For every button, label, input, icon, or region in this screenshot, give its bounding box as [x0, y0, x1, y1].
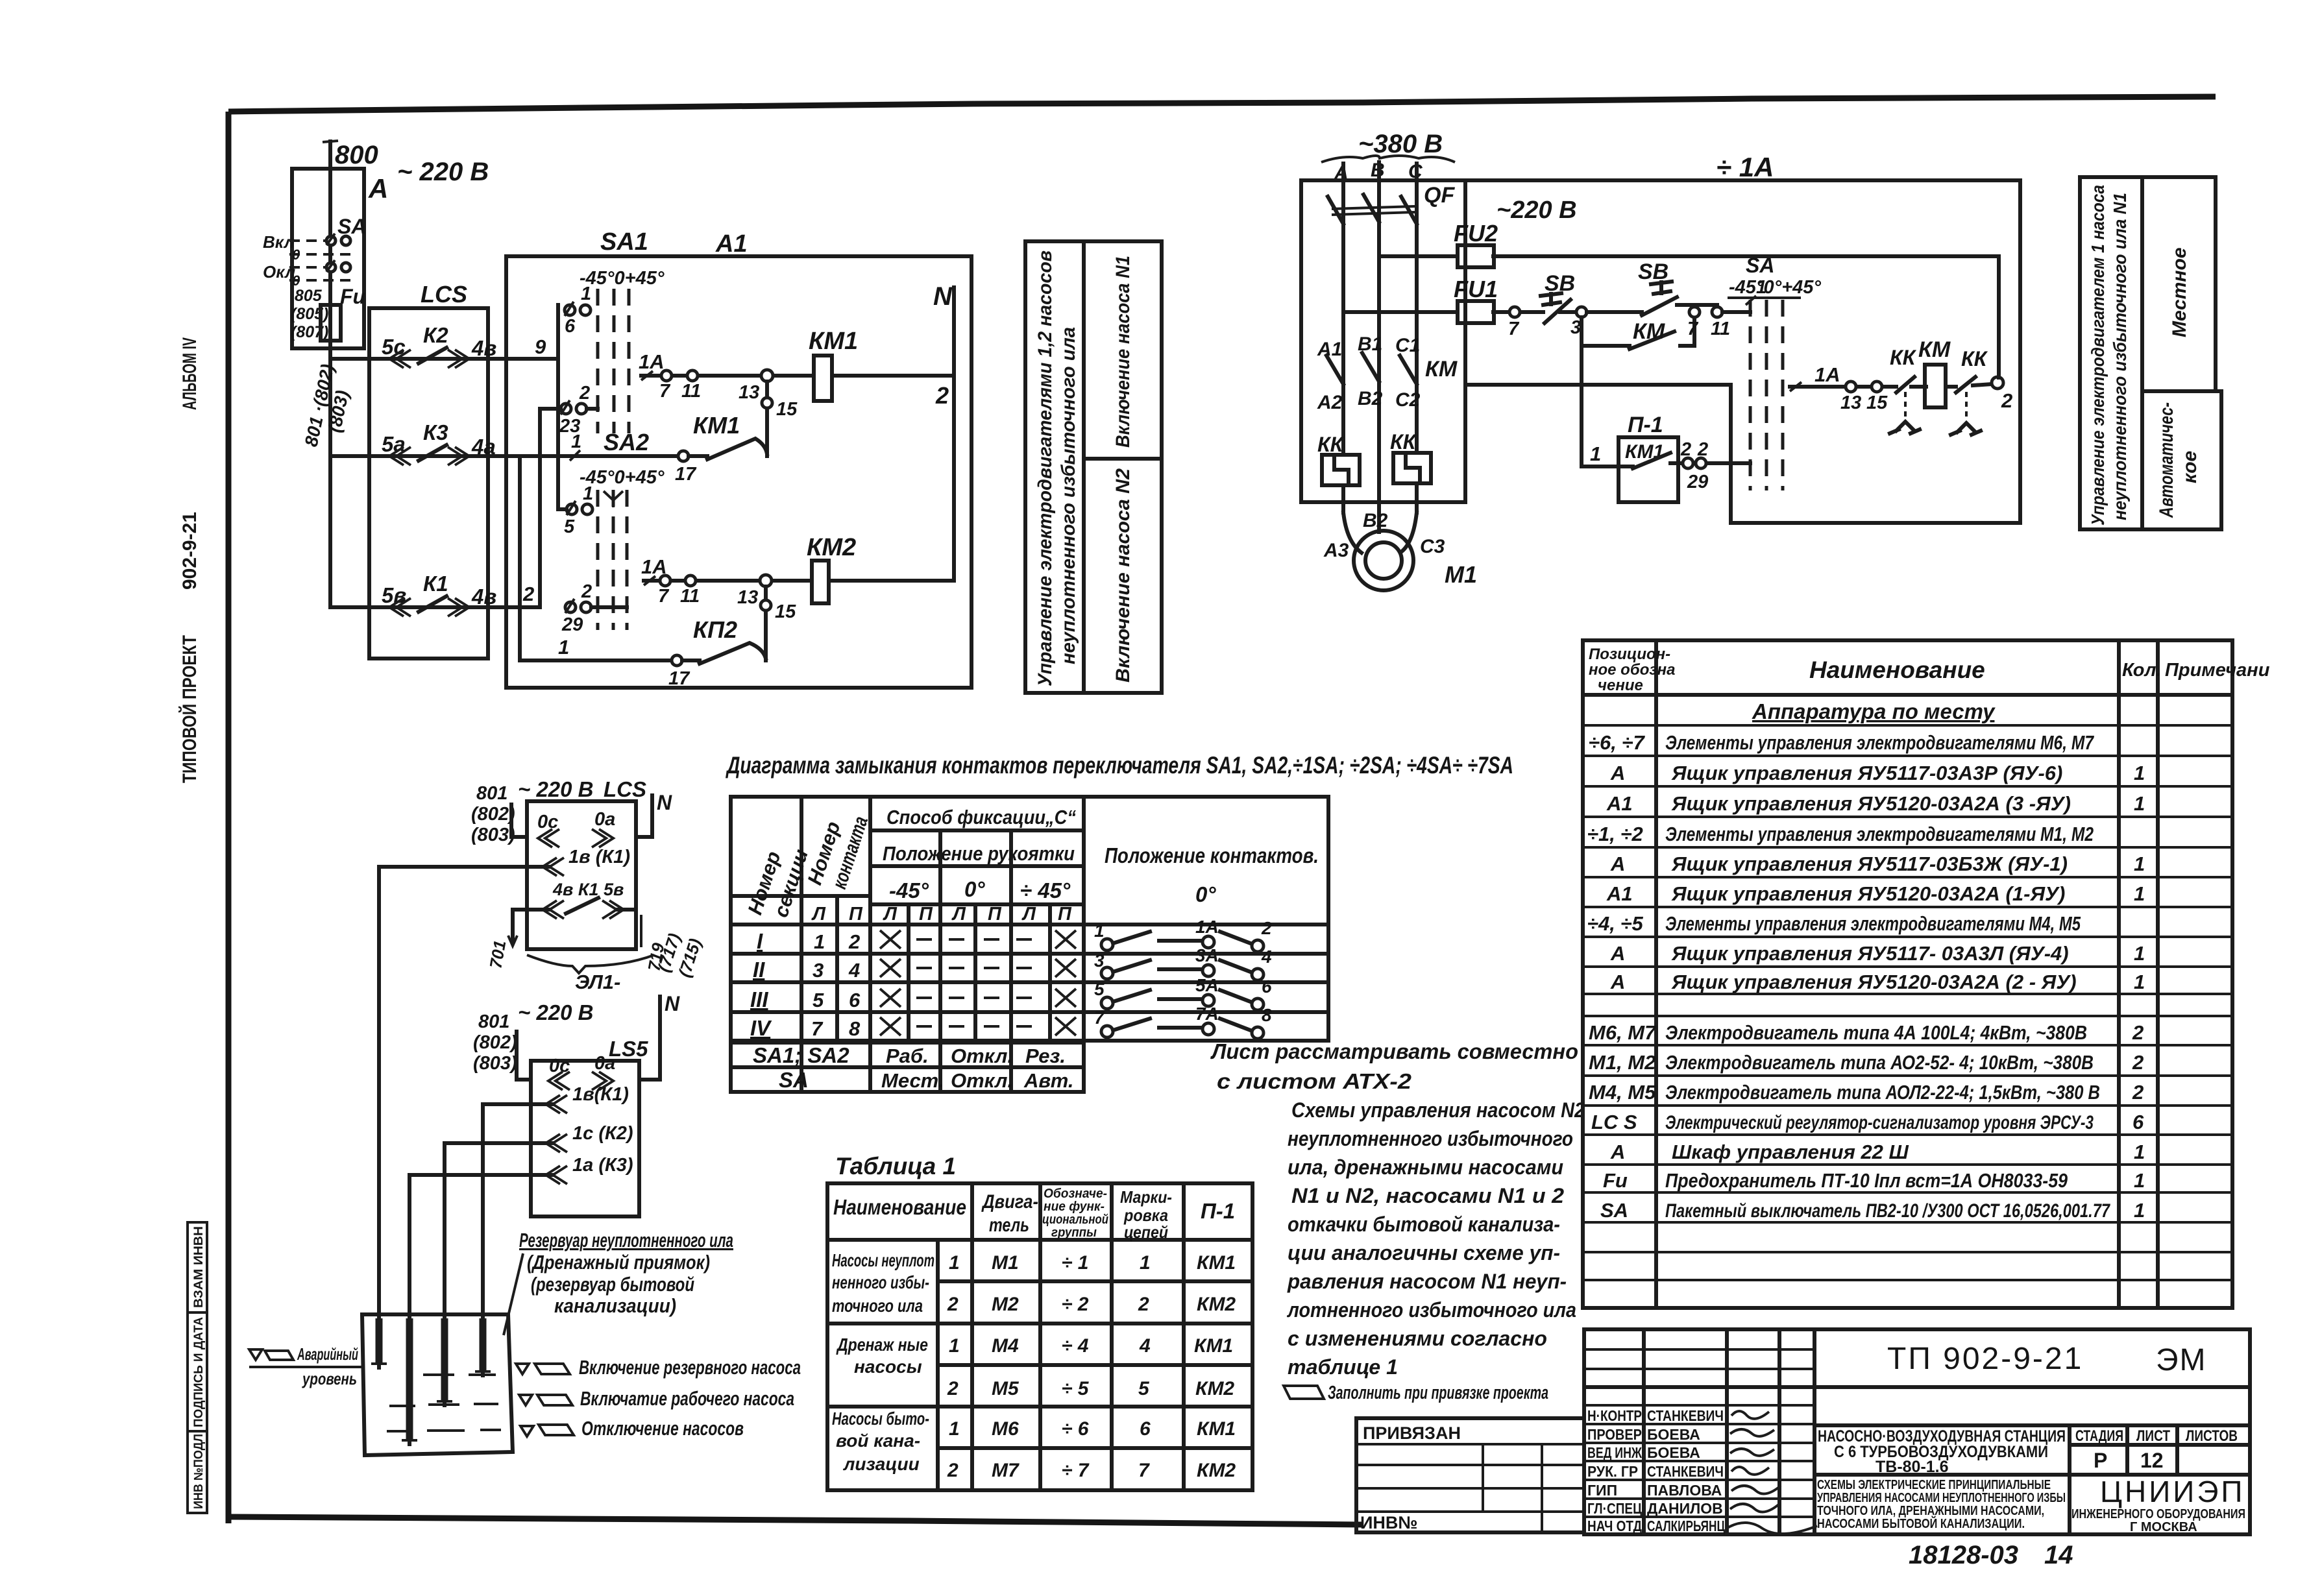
svg-text:Окл: Окл — [263, 262, 295, 282]
svg-text:1: 1 — [581, 284, 591, 304]
svg-text:801: 801 — [478, 1011, 509, 1032]
node 2 — [1992, 377, 2003, 389]
svg-text:АЛЬБОМ IV: АЛЬБОМ IV — [179, 337, 201, 410]
svg-text:4: 4 — [1261, 947, 1272, 967]
svg-text:КМ2: КМ2 — [1197, 1460, 1236, 1481]
caption table pumps 1-2 — [1025, 241, 1162, 693]
svg-text:2: 2 — [2001, 389, 2012, 412]
svg-text:Шкаф управления 22 Ш: Шкаф управления 22 Ш — [1672, 1141, 1909, 1163]
svg-text:15: 15 — [775, 601, 796, 622]
riser x801 — [518, 456, 522, 660]
svg-text:уровень: уровень — [301, 1369, 357, 1388]
SA2 bracket — [604, 491, 623, 507]
svg-text:1: 1 — [949, 1252, 960, 1274]
title block verticals left — [1644, 1329, 1814, 1534]
svg-text:КМ1: КМ1 — [1194, 1335, 1233, 1357]
svg-text:П: П — [988, 904, 1002, 925]
svg-text:0: 0 — [292, 247, 300, 263]
coil KM1 — [814, 356, 832, 401]
svg-text:Л: Л — [883, 904, 898, 925]
svg-text:N1 и N2, насосами N1 и 2: N1 и N2, насосами N1 и 2 — [1291, 1184, 1564, 1207]
svg-text:1: 1 — [1140, 1252, 1151, 1274]
svg-text:SА: SА — [779, 1068, 809, 1092]
svg-text:Диаграмма замыкания контактов: Диаграмма замыкания контактов переключат… — [726, 752, 1513, 779]
svg-text:КМ: КМ — [1633, 319, 1665, 344]
row 1a K3 — [409, 1173, 552, 1177]
motor compartment box — [1301, 180, 1465, 502]
brace under 380V — [1321, 156, 1455, 162]
svg-text:(802): (802) — [473, 1032, 517, 1053]
svg-text:Ящик управления ЯУ5117-03Б3Ж: Ящик управления ЯУ5117-03Б3Ж (ЯУ-1) — [1671, 852, 2068, 875]
wire row 5v — [330, 605, 540, 609]
svg-text:А1: А1 — [1606, 882, 1633, 905]
svg-text:6: 6 — [849, 989, 861, 1011]
svg-text:LC S: LC S — [1591, 1111, 1637, 1133]
svg-text:неуплотненного избыточного ила: неуплотненного избыточного ила — [1058, 327, 1079, 664]
svg-text:Ящик управления ЯУ5120-03А2А: Ящик управления ЯУ5120-03А2А (2 - ЯУ) — [1671, 971, 2077, 993]
wire coil KM1 to N — [832, 374, 954, 378]
svg-text:ЛИСТОВ: ЛИСТОВ — [2186, 1427, 2238, 1445]
svg-text:точного ила: точного ила — [832, 1296, 923, 1316]
svg-text:2: 2 — [2132, 1051, 2144, 1074]
svg-text:Откл.: Откл. — [951, 1045, 1013, 1067]
svg-text:2: 2 — [1680, 439, 1691, 460]
svg-text:~ 220 В: ~ 220 В — [518, 777, 594, 801]
svg-text:QF: QF — [1424, 183, 1455, 208]
svg-text:ТП 902-9-21: ТП 902-9-21 — [1887, 1342, 2083, 1376]
wire 800 vertical feed — [328, 141, 332, 607]
fuse FU1 rung — [1343, 310, 1543, 314]
svg-text:I: I — [757, 929, 763, 953]
note fill on binding — [1284, 1386, 1324, 1399]
switch SA2 dashed poles — [598, 490, 627, 630]
contact sketch row I — [1094, 917, 1272, 952]
svg-text:15: 15 — [776, 399, 798, 420]
svg-text:29: 29 — [1687, 472, 1708, 492]
title main divider — [1584, 1387, 2250, 1475]
node 15 — [762, 398, 772, 408]
svg-text:неуплотненного избыточного ил: неуплотненного избыточного ила N1 — [2110, 193, 2130, 520]
svg-text:М2: М2 — [992, 1294, 1019, 1315]
svg-text:7: 7 — [1508, 319, 1520, 339]
contact 2-23 — [561, 404, 571, 414]
signatures squiggles — [1731, 1411, 1769, 1419]
svg-text:ЛИСТ: ЛИСТ — [2136, 1427, 2170, 1445]
svg-text:Способ фиксации„С“: Способ фиксации„С“ — [886, 806, 1076, 828]
svg-text:К2: К2 — [423, 323, 448, 347]
svg-text:1в(К1): 1в(К1) — [572, 1084, 629, 1105]
svg-text:М1: М1 — [992, 1252, 1019, 1274]
svg-text:Электродвигатель типа 4А 1: Электродвигатель типа 4А 100L4; 4кВт, ~3… — [1665, 1021, 2087, 1044]
svg-text:Включение насоса N1: Включение насоса N1 — [1112, 256, 1134, 448]
svg-text:откачки бытовой канализа-: откачки бытовой канализа- — [1288, 1213, 1560, 1236]
svg-text:11: 11 — [1711, 319, 1730, 339]
svg-text:Элементы управления электродви: Элементы управления электродвигателями М… — [1665, 912, 2081, 935]
contact KM aux branch — [1582, 317, 1694, 349]
svg-text:Лист рассматривать совместно: Лист рассматривать совместно — [1210, 1039, 1578, 1063]
svg-text:Н·КОНТР: Н·КОНТР — [1587, 1407, 1642, 1424]
svg-text:Элементы управления электродв: Элементы управления электродвигателями М… — [1665, 823, 2094, 845]
wire 1-5 stub — [558, 507, 567, 511]
svg-text:Дренаж ные: Дренаж ные — [836, 1335, 928, 1355]
node 7 after FU1 — [1509, 307, 1520, 317]
svg-text:Положение рукоятки: Положение рукоятки — [883, 842, 1075, 865]
svg-text:ЦНИИЭП: ЦНИИЭП — [2100, 1475, 2245, 1508]
wire 2-23 stub — [540, 407, 598, 411]
table1 header bottom — [827, 1238, 1252, 1242]
svg-text:1: 1 — [2134, 762, 2145, 784]
svg-text:÷ 2: ÷ 2 — [1062, 1294, 1089, 1315]
svg-text:лизации: лизации — [842, 1454, 920, 1474]
svg-text:В2: В2 — [1363, 510, 1388, 531]
chevron in row1 — [389, 350, 411, 368]
svg-text:N: N — [665, 992, 680, 1015]
svg-text:1: 1 — [2134, 1199, 2145, 1222]
svg-text:3: 3 — [812, 959, 824, 982]
svg-text:А: А — [1610, 1141, 1625, 1163]
svg-text:Местное: Местное — [2169, 247, 2190, 337]
heater KK box A — [1322, 455, 1360, 485]
node 13 — [1846, 381, 1856, 392]
svg-text:А1: А1 — [715, 230, 748, 258]
contact KM1 NO — [689, 439, 767, 459]
fuse FU1 body — [1458, 301, 1494, 323]
node 15 — [1872, 381, 1882, 392]
svg-text:9: 9 — [535, 335, 546, 358]
svg-text:5А: 5А — [1195, 975, 1219, 995]
svg-text:2: 2 — [581, 581, 592, 602]
wire 2-29 to dashed — [591, 605, 627, 609]
svg-text:Ящик управления ЯУ5117- 03А3: Ящик управления ЯУ5117- 03А3Л (ЯУ-4) — [1671, 942, 2069, 965]
caption table pump1 col1 — [2080, 177, 2142, 529]
node 3 — [1576, 307, 1587, 317]
svg-text:1А: 1А — [1195, 917, 1219, 937]
arrow 1A tick — [644, 576, 655, 585]
svg-text:5: 5 — [1138, 1378, 1150, 1399]
svg-text:Ящик управления ЯУ5120-03А2А: Ящик управления ЯУ5120-03А2А (3 -ЯУ) — [1671, 792, 2071, 815]
svg-text:2: 2 — [1138, 1294, 1149, 1315]
switch SA dashed poles — [1750, 300, 1783, 490]
chevron out row1 — [448, 350, 469, 368]
svg-text:КК: КК — [1390, 430, 1417, 453]
svg-text:Л: Л — [811, 904, 826, 925]
svg-text:УПРАВЛЕНИЯ НАСОСАМИ НЕУПЛОТНЕН: УПРАВЛЕНИЯ НАСОСАМИ НЕУПЛОТНЕННОГО ИЗБЫ — [1817, 1491, 2066, 1505]
svg-text:с листом АТХ-2: с листом АТХ-2 — [1217, 1069, 1412, 1093]
svg-text:ции аналогичны схеме уп-: ции аналогичны схеме уп- — [1288, 1241, 1560, 1264]
svg-text:чение: чение — [1598, 677, 1643, 694]
contacts KM main — [1326, 353, 1417, 384]
contact KK thermal 2 — [1946, 377, 1992, 393]
svg-text:ТОЧНОГО ИЛА, ДРЕНАЖНЫМИ НАСОСА: ТОЧНОГО ИЛА, ДРЕНАЖНЫМИ НАСОСАМИ, — [1817, 1504, 2044, 1518]
svg-text:SА: SА — [1746, 254, 1774, 277]
svg-text:7: 7 — [1138, 1460, 1150, 1481]
svg-text:С2: С2 — [1395, 389, 1421, 411]
svg-text:Обозначе-: Обозначе- — [1044, 1187, 1107, 1201]
switch SA contact row3 — [326, 263, 336, 272]
svg-text:7А: 7А — [1195, 1004, 1219, 1024]
svg-text:М5: М5 — [992, 1378, 1020, 1399]
water dashes row1 — [423, 1373, 496, 1376]
contact sketch row II — [1094, 945, 1272, 980]
svg-text:Ящик управления ЯУ5117-03А3Р: Ящик управления ЯУ5117-03А3Р (ЯУ-6) — [1671, 762, 2062, 784]
svg-text:2: 2 — [848, 930, 860, 953]
svg-text:II: II — [753, 958, 765, 982]
riser electrode 2 — [408, 1175, 411, 1444]
svg-text:4: 4 — [1139, 1335, 1151, 1357]
riser electrode 1 — [377, 867, 381, 1368]
svg-text:÷4, ÷5: ÷4, ÷5 — [1587, 912, 1643, 935]
svg-text:5: 5 — [564, 516, 575, 537]
svg-text:(803): (803) — [473, 1053, 517, 1074]
svg-text:2: 2 — [947, 1378, 959, 1399]
svg-text:Кол.: Кол. — [2122, 660, 2162, 681]
svg-text:0а: 0а — [594, 1053, 615, 1074]
cabinet box A — [292, 169, 364, 348]
svg-text:LCS: LCS — [421, 281, 467, 308]
node 17 rung2 — [678, 451, 689, 461]
svg-text:~ 220 В: ~ 220 В — [397, 158, 489, 186]
svg-text:1: 1 — [1094, 921, 1105, 941]
svg-text:4в К1 5в: 4в К1 5в — [552, 880, 624, 899]
heater KK box C — [1393, 453, 1431, 483]
lead 801 bracket 2 — [517, 1032, 531, 1080]
svg-text:А1: А1 — [1317, 339, 1342, 360]
svg-text:Управление электродвигателями: Управление электродвигателями 1,2 насосо… — [1034, 250, 1056, 686]
node 15 — [761, 600, 771, 611]
svg-text:М7: М7 — [992, 1460, 1020, 1481]
svg-text:КМ1: КМ1 — [809, 328, 858, 355]
svg-text:13: 13 — [1840, 393, 1861, 413]
svg-text:Л: Л — [951, 904, 966, 925]
svg-text:А: А — [1610, 762, 1625, 784]
svg-text:Fu: Fu — [1603, 1169, 1628, 1192]
svg-text:800: 800 — [335, 141, 378, 169]
svg-text:902-9-21: 902-9-21 — [179, 512, 201, 590]
rung SA2 line — [575, 454, 678, 458]
svg-text:КМ2: КМ2 — [1195, 1378, 1234, 1399]
svg-text:FU1: FU1 — [1454, 276, 1498, 302]
svg-text:-45°: -45° — [889, 878, 929, 902]
svg-text:КК: КК — [1317, 433, 1345, 456]
svg-text:SB: SB — [1638, 260, 1668, 284]
svg-text:1с (К2): 1с (К2) — [572, 1123, 633, 1144]
svg-text:Резервуар неуплотненного ила: Резервуар неуплотненного ила — [519, 1229, 733, 1251]
node 7 right — [1689, 307, 1700, 317]
svg-text:Наименование: Наименование — [833, 1195, 966, 1219]
svg-text:Раб.: Раб. — [886, 1045, 929, 1067]
svg-text:1: 1 — [2134, 942, 2145, 965]
rung KM2 coil line — [644, 579, 812, 583]
svg-text:ГЛ·СПЕЦ: ГЛ·СПЕЦ — [1587, 1500, 1642, 1517]
svg-text:ИНЖЕНЕРНОГО ОБОРУДОВАНИЯ: ИНЖЕНЕРНОГО ОБОРУДОВАНИЯ — [2071, 1507, 2245, 1521]
svg-text:ПРОВЕР: ПРОВЕР — [1587, 1426, 1642, 1443]
svg-text:кое: кое — [2179, 451, 2201, 483]
svg-text:вой кана-: вой кана- — [836, 1431, 920, 1451]
svg-text:ПАВЛОВА: ПАВЛОВА — [1647, 1482, 1722, 1499]
svg-text:А1: А1 — [1606, 792, 1633, 815]
tick 1 — [1746, 296, 1756, 305]
title block outer — [1584, 1329, 2250, 1534]
contact KM2 NO — [682, 643, 766, 664]
node 13 junction — [761, 370, 773, 381]
svg-text:2: 2 — [2132, 1081, 2144, 1104]
svg-text:Включатие рабочего насоса: Включатие рабочего насоса — [580, 1387, 794, 1410]
svg-text:Электрический регулятор-сигнал: Электрический регулятор-сигнализатор уро… — [1665, 1112, 2094, 1133]
svg-text:1: 1 — [571, 431, 581, 452]
control box A1 — [506, 256, 971, 688]
svg-text:КК: КК — [1890, 346, 1917, 369]
svg-text:Таблица 1: Таблица 1 — [835, 1153, 956, 1179]
svg-text:N: N — [933, 282, 953, 311]
svg-text:13: 13 — [737, 587, 758, 608]
row 1c K2 — [445, 1141, 552, 1145]
svg-text:А3: А3 — [1323, 540, 1349, 561]
diagram verticals — [801, 797, 1050, 1092]
svg-text:Аварийный: Аварийный — [297, 1344, 358, 1364]
svg-text:SА: SА — [1600, 1199, 1628, 1222]
lead 801 bracket — [511, 804, 527, 837]
svg-text:Электродвигатель типа АО2-: Электродвигатель типа АО2-52- 4; 10кВт, … — [1665, 1051, 2094, 1074]
svg-text:А: А — [1610, 942, 1625, 965]
svg-text:лотненного избыточного ила: лотненного избыточного ила — [1286, 1298, 1576, 1322]
bottom rung wire — [520, 659, 672, 662]
svg-text:~ 220 В: ~ 220 В — [518, 1000, 594, 1024]
node 13 junction — [760, 575, 772, 586]
svg-text:НАЧ ОТД: НАЧ ОТД — [1587, 1517, 1642, 1534]
svg-text:С3: С3 — [1420, 536, 1445, 557]
contact sketch row IV — [1094, 1004, 1272, 1039]
node wire-800 top tick — [323, 141, 338, 142]
svg-text:Позицион-: Позицион- — [1589, 646, 1670, 663]
node 17 bottom — [672, 655, 682, 666]
chevron out row2 — [448, 447, 469, 465]
tank walls — [362, 1314, 513, 1455]
svg-text:П: П — [1058, 904, 1072, 925]
contact P-1 — [1619, 453, 1678, 468]
svg-text:М1: М1 — [1445, 561, 1477, 588]
svg-text:2: 2 — [947, 1460, 959, 1481]
svg-text:1А: 1А — [639, 350, 665, 373]
level mark avariyny — [249, 1349, 262, 1360]
svg-text:6: 6 — [2132, 1111, 2144, 1133]
svg-text:Мест.: Мест. — [881, 1069, 944, 1092]
arrow 1A tick — [641, 371, 653, 380]
svg-text:11: 11 — [680, 586, 700, 607]
svg-text:18128-03 14: 18128-03 14 — [1909, 1541, 2073, 1569]
svg-text:Пакетный выключатель ПВ2-10: Пакетный выключатель ПВ2-10 /У300 ОСТ 16… — [1665, 1200, 2110, 1222]
svg-text:Ящик управления ЯУ5120-03А2А: Ящик управления ЯУ5120-03А2А (1-ЯУ) — [1671, 882, 2065, 905]
svg-text:К3: К3 — [423, 420, 448, 444]
svg-text:А2: А2 — [1317, 392, 1343, 413]
svg-text:1: 1 — [2134, 1169, 2145, 1192]
svg-text:1: 1 — [1590, 442, 1601, 465]
level mark reserve pump — [516, 1364, 529, 1374]
rung KM coil — [1790, 385, 1896, 389]
chevron in row2 — [389, 447, 411, 465]
node 11 — [685, 575, 696, 586]
svg-text:(802): (802) — [471, 804, 515, 825]
svg-text:КМ2: КМ2 — [1197, 1294, 1236, 1315]
svg-text:ПРИВЯЗАН: ПРИВЯЗАН — [1363, 1423, 1461, 1443]
svg-text:ила, дренажными насосами: ила, дренажными насосами — [1288, 1155, 1563, 1179]
svg-text:805: 805 — [295, 287, 323, 305]
svg-text:÷6, ÷7: ÷6, ÷7 — [1589, 731, 1645, 754]
svg-text:4: 4 — [848, 959, 860, 982]
wire row 5a — [330, 454, 575, 458]
svg-text:ненного избы-: ненного избы- — [832, 1272, 929, 1292]
contact K3 — [419, 445, 446, 461]
chevron in row3 — [389, 598, 411, 616]
svg-text:~220 В: ~220 В — [1497, 197, 1577, 224]
svg-text:1: 1 — [2134, 1141, 2145, 1163]
svg-text:ТИПОВОЙ ПРОЕКТ: ТИПОВОЙ ПРОЕКТ — [178, 635, 201, 783]
svg-text:1: 1 — [949, 1418, 960, 1440]
svg-text:6: 6 — [565, 316, 576, 337]
svg-text:Включение резервного насоса: Включение резервного насоса — [579, 1356, 801, 1379]
svg-text:Насосы быто-: Насосы быто- — [832, 1409, 929, 1429]
svg-text:÷ 4: ÷ 4 — [1062, 1335, 1089, 1357]
svg-text:÷ 6: ÷ 6 — [1062, 1418, 1089, 1440]
svg-text:Авт.: Авт. — [1023, 1069, 1073, 1092]
svg-text:2: 2 — [1697, 439, 1708, 460]
svg-text:÷ 1А: ÷ 1А — [1716, 152, 1774, 182]
svg-text:1: 1 — [2134, 792, 2145, 815]
svg-text:17: 17 — [668, 668, 690, 689]
electrode sheaths — [379, 1318, 483, 1440]
svg-text:8: 8 — [1262, 1005, 1272, 1025]
fuse Fu body — [321, 305, 341, 341]
svg-text:БОЕВА: БОЕВА — [1647, 1444, 1700, 1461]
svg-text:-45°0°+45°: -45°0°+45° — [1729, 277, 1821, 298]
privyazan table — [1356, 1418, 1584, 1532]
sheet frame left border — [226, 112, 232, 1523]
svg-text:ВЕД ИНЖ: ВЕД ИНЖ — [1587, 1444, 1642, 1461]
contact KK thermal 1 — [1896, 377, 1926, 393]
breaker QF strokes — [1328, 195, 1417, 224]
svg-text:N: N — [657, 791, 672, 814]
wire N lead 2 — [639, 997, 660, 1080]
svg-text:Г МОСКВА: Г МОСКВА — [2130, 1520, 2197, 1534]
phase bus A — [1341, 163, 1345, 513]
svg-text:Л: Л — [1021, 904, 1036, 925]
wire row 5c — [330, 357, 558, 361]
svg-text:1а (К3): 1а (К3) — [572, 1155, 633, 1176]
svg-text:ИНВ№: ИНВ№ — [1360, 1513, 1418, 1532]
svg-text:11: 11 — [681, 381, 701, 402]
svg-text:1: 1 — [558, 636, 569, 659]
riser electrode 3 — [443, 1143, 446, 1405]
parts row lines — [1583, 725, 2232, 1280]
row 1v K1 — [379, 865, 548, 869]
svg-text:III: III — [750, 987, 768, 1011]
svg-text:1: 1 — [2134, 882, 2145, 905]
caption cell avtomaticheskoe — [2142, 391, 2221, 529]
relay box LCS — [369, 308, 488, 659]
svg-text:(Дренажный приямок): (Дренажный приямок) — [527, 1251, 710, 1274]
svg-text:тель: тель — [989, 1215, 1029, 1236]
svg-text:(резервуар бытовой: (резервуар бытовой — [531, 1273, 694, 1296]
svg-text:0с: 0с — [537, 812, 558, 832]
motor M1 outer — [1354, 531, 1413, 590]
svg-text:ЭМ: ЭМ — [2156, 1343, 2206, 1377]
svg-text:Рез.: Рез. — [1025, 1045, 1066, 1067]
caption cell mestnoe — [2142, 177, 2216, 391]
svg-text:÷ 1: ÷ 1 — [1062, 1252, 1088, 1274]
svg-text:М4, М5: М4, М5 — [1589, 1081, 1656, 1104]
leader reservoir — [504, 1253, 523, 1335]
svg-text:6: 6 — [1140, 1418, 1151, 1440]
svg-text:Заполнить при привязке проекта: Заполнить при привязке проекта — [1328, 1383, 1548, 1403]
